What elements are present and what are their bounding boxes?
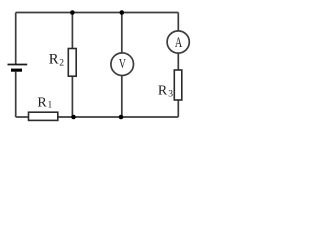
- svg-text:R: R: [49, 51, 59, 67]
- svg-text:V: V: [119, 57, 126, 72]
- svg-text:R: R: [37, 96, 47, 111]
- svg-text:2: 2: [59, 59, 64, 69]
- svg-text:R: R: [158, 84, 168, 99]
- svg-text:A: A: [175, 35, 183, 51]
- svg-text:3: 3: [168, 90, 173, 100]
- svg-text:1: 1: [48, 101, 53, 111]
